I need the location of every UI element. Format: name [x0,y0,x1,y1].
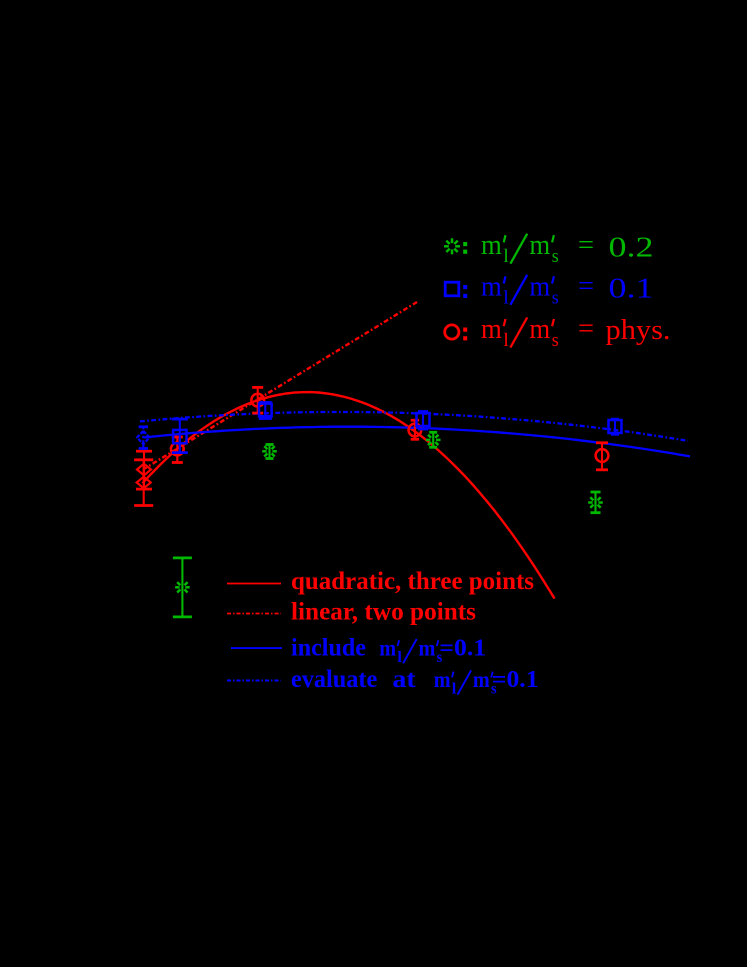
legend: green colon [463,242,467,254]
svg-text:l: l [503,286,509,307]
svg-text:m: m [379,635,396,661]
svg-text:=0.1: =0.1 [492,665,539,692]
svg-text:s: s [552,329,559,350]
legend sample: blue dash-dot line [227,680,281,682]
blue open diamond point [139,427,148,449]
svg-text:include: include [291,635,366,662]
svg-text:=: = [578,314,594,345]
svg-text:0.1: 0.1 [609,272,654,304]
svg-text:evaluate: evaluate [291,666,377,693]
svg-text:l: l [503,329,509,350]
svg-text:at: at [392,666,415,693]
blue dash-dot curve [140,412,688,441]
svg-text:s: s [552,245,559,266]
green burst point 4 [173,558,192,617]
svg-text:l: l [503,245,509,266]
svg-text:m: m [529,270,550,302]
svg-text:linear, two points: linear, two points [291,598,476,625]
blue solid curve [144,427,690,457]
svg-text:m: m [473,666,490,692]
red diamond point 2 [134,460,153,506]
green burst point 2 [429,432,437,447]
red circle point 2 [252,387,263,413]
svg-text:=: = [578,230,594,261]
svg-text:m: m [481,270,502,302]
svg-text:m: m [529,313,550,345]
svg-text:m: m [529,229,550,261]
legend sample: red dash-dot line [227,613,281,615]
svg-text:l: l [397,649,402,666]
legend: red colon [463,328,467,341]
blue square point 1 [172,419,188,453]
svg-text:quadratic, three points: quadratic, three points [291,568,534,595]
svg-text:m: m [419,635,436,661]
red diamond point 1 [136,451,152,489]
red circle point 1 [172,437,183,463]
svg-text:=0.1: =0.1 [439,634,486,661]
svg-text:s: s [552,286,559,307]
legend sample: red solid line [227,583,281,585]
red circle point 3 [411,420,419,439]
svg-text:phys.: phys. [606,313,671,345]
blue square point 3 [418,412,428,430]
red linear dash-dot line [143,301,418,469]
green burst point 3 [591,492,601,513]
blue square point 2 [259,403,272,419]
svg-text:=: = [578,271,594,302]
svg-text:0.2: 0.2 [609,231,654,263]
green burst point 1 [266,445,274,459]
legend: red circle symbol [445,325,459,339]
blue square point 4 [611,419,619,434]
legend: green burst symbol [444,238,460,254]
svg-text:m: m [481,313,502,345]
svg-text:m: m [481,229,502,261]
red circle point 4 [596,443,608,470]
legend sample: blue solid line [231,647,282,649]
legend: blue square symbol [445,282,459,296]
red quadratic curve [143,392,555,598]
svg-text:l: l [452,681,457,698]
svg-text:m: m [434,666,451,692]
legend: blue colon [463,285,467,298]
